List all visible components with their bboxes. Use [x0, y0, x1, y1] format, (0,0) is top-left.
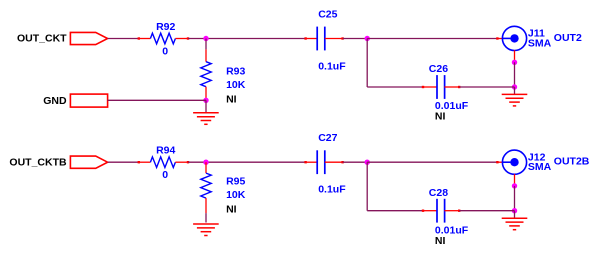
pin end C28.1	[422, 210, 424, 212]
wire junction to J11	[367, 38, 497, 40]
svg-text:10K: 10K	[226, 79, 246, 91]
wire junction to J12	[367, 161, 497, 163]
capacitor C27	[317, 150, 325, 174]
node J11 pin 2	[512, 60, 517, 65]
svg-text:NI: NI	[226, 203, 237, 215]
pin wire C26.1	[422, 86, 437, 88]
svg-text:0.1uF: 0.1uF	[318, 183, 346, 195]
wire C28 to J12 ground net	[459, 210, 514, 212]
pin wire C25.2	[325, 38, 343, 40]
pin wire J11.1	[497, 38, 503, 40]
svg-text:0.1uF: 0.1uF	[318, 61, 346, 73]
svg-text:R92: R92	[156, 21, 175, 33]
ground under J11	[502, 94, 528, 106]
wire J12 to ground net	[514, 186, 516, 211]
pin wire J12.2	[514, 174, 516, 186]
resistor R93	[201, 62, 211, 87]
pin end C28.2	[458, 210, 460, 212]
pin wire R92.1	[138, 38, 150, 40]
svg-text:OUT2: OUT2	[554, 32, 582, 44]
junction node after C27	[365, 160, 370, 165]
wire C25 to junction	[343, 38, 368, 40]
svg-text:GND: GND	[43, 95, 67, 107]
pin wire C27.2	[325, 161, 343, 163]
ground lead wire J11	[514, 87, 516, 94]
pin end R92.2	[187, 37, 189, 39]
pin wire C25.1	[306, 38, 318, 40]
junction node at R95 top	[203, 160, 208, 165]
svg-text:R93: R93	[226, 66, 245, 78]
capacitor C26	[437, 75, 445, 99]
port connector OUT_CKT	[70, 32, 107, 44]
pin end C27.2	[341, 161, 343, 163]
ground under R93	[193, 113, 219, 125]
pin end C26.2	[458, 86, 460, 88]
pin wire R92.2	[175, 38, 188, 40]
wire OUT_CKT port to R92	[108, 38, 138, 40]
connector J11 SMA	[502, 26, 526, 50]
pin end C27.1	[304, 161, 306, 163]
svg-text:R94: R94	[156, 145, 175, 157]
wire C27 to junction	[343, 161, 368, 163]
pin wire R93.2	[205, 87, 207, 101]
pin wire C28.2	[444, 210, 459, 212]
pin end R92.1	[138, 37, 140, 39]
pin wire R93.1	[205, 49, 207, 61]
pin wire R94.2	[175, 161, 188, 163]
pin end R94.1	[138, 161, 140, 163]
svg-text:NI: NI	[226, 93, 237, 105]
svg-text:NI: NI	[435, 111, 446, 123]
svg-text:OUT_CKT: OUT_CKT	[17, 33, 67, 45]
svg-text:C27: C27	[318, 132, 337, 144]
pin wire C28.1	[422, 210, 437, 212]
wire to C26	[367, 86, 422, 88]
svg-text:SMA: SMA	[528, 37, 552, 49]
ground under J12	[502, 218, 528, 230]
ground lead wire J12	[514, 211, 516, 218]
node J12 pin 2	[512, 183, 517, 188]
port connector OUT_CKTB	[70, 156, 107, 168]
pin wire J12.1	[497, 161, 503, 163]
wire junction down to C26 branch	[366, 39, 368, 88]
pin end C26.1	[422, 86, 424, 88]
connector J12 SMA	[502, 150, 526, 174]
pin wire R95.2	[205, 198, 207, 213]
resistor R95	[201, 173, 211, 198]
svg-text:0: 0	[162, 46, 168, 58]
resistor R94	[150, 157, 175, 168]
svg-text:0: 0	[162, 169, 168, 181]
capacitor C25	[317, 27, 325, 51]
junction node after C25	[365, 36, 370, 41]
svg-text:C28: C28	[429, 187, 448, 199]
pin wire J11.2	[514, 50, 516, 62]
wire R92 to C25	[188, 38, 306, 40]
svg-text:C25: C25	[318, 9, 337, 21]
wire J11 to ground net	[514, 62, 516, 87]
port connector GND	[70, 94, 107, 107]
svg-text:NI: NI	[435, 235, 446, 247]
svg-text:C26: C26	[429, 63, 448, 75]
svg-text:OUT2B: OUT2B	[554, 156, 590, 168]
pin wire C26.2	[444, 86, 459, 88]
pin wire C27.1	[306, 161, 318, 163]
pin wire R95.1	[205, 162, 207, 173]
svg-text:R95: R95	[226, 176, 245, 188]
pin end R94.2	[187, 161, 189, 163]
pin end C25.1	[304, 37, 306, 39]
svg-text:10K: 10K	[226, 189, 246, 201]
wire C26 to J11 ground net	[459, 86, 514, 88]
junction node at R93 top	[203, 36, 208, 41]
svg-text:SMA: SMA	[528, 161, 552, 173]
ground under R95	[193, 224, 219, 236]
svg-text:OUT_CKTB: OUT_CKTB	[9, 156, 67, 168]
junction node J11 ground net	[512, 84, 517, 89]
pin end J11.1	[496, 37, 498, 39]
wire to C28	[367, 210, 422, 212]
pin end C25.2	[341, 37, 343, 39]
wire R94 to C27	[188, 161, 306, 163]
capacitor C28	[437, 199, 445, 223]
pin end J12.1	[496, 161, 498, 163]
wire OUT_CKTB port to R94	[108, 161, 138, 163]
wire stub to R93	[205, 39, 207, 50]
ground lead wire R93	[205, 100, 207, 112]
resistor R92	[150, 33, 175, 44]
ground lead wire R95	[205, 213, 207, 222]
wire junction down to C28 branch	[366, 162, 368, 211]
junction node GND net	[203, 98, 208, 103]
junction node J12 ground net	[512, 208, 517, 213]
pin wire R94.1	[138, 161, 150, 163]
wire GND port to R93	[108, 99, 206, 101]
